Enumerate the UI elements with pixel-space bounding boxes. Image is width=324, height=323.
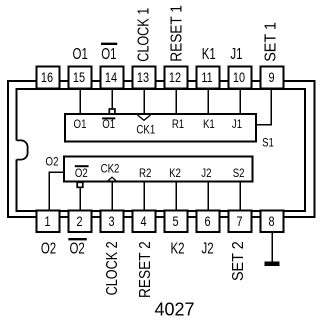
svg-text:7: 7 — [236, 214, 242, 230]
svg-text:6: 6 — [204, 214, 210, 230]
pin 1 box — [37, 211, 60, 232]
svg-text:O1: O1 — [102, 118, 115, 131]
svg-text:1: 1 — [44, 214, 50, 230]
svg-text:O1: O1 — [101, 46, 116, 63]
pin 10 box — [229, 67, 252, 89]
svg-text:4027: 4027 — [154, 300, 194, 320]
svg-text:RESET 1: RESET 1 — [168, 5, 185, 62]
ground symbol — [264, 262, 279, 267]
wire pin13 CK1 — [143, 89, 145, 115]
wire pin6 J2 — [207, 182, 209, 211]
wire pin3 CK2 — [111, 182, 113, 211]
pin 14 box — [101, 67, 124, 89]
ground wire pin 8 — [271, 232, 273, 262]
pin 12 box — [165, 67, 188, 89]
pin 2 box — [69, 211, 92, 232]
svg-text:K1: K1 — [203, 118, 215, 131]
svg-text:RESET 2: RESET 2 — [137, 241, 154, 298]
svg-text:10: 10 — [233, 70, 245, 86]
svg-text:8: 8 — [268, 214, 274, 230]
pin 3 box — [101, 211, 124, 232]
svg-text:4: 4 — [140, 214, 146, 230]
pin 4 box — [133, 211, 156, 232]
svg-text:J1: J1 — [232, 118, 242, 131]
svg-text:14: 14 — [105, 70, 117, 86]
wire pin15 O1 — [79, 89, 81, 115]
svg-text:O2: O2 — [46, 156, 59, 169]
wire pin11 K1 — [207, 89, 209, 115]
svg-text:S2: S2 — [233, 167, 245, 180]
wire pin14 O1bar — [111, 89, 113, 109]
svg-text:12: 12 — [169, 70, 181, 86]
outer package outline ring — [8, 81, 314, 217]
pin 7 box — [229, 211, 252, 232]
svg-text:O1: O1 — [74, 118, 87, 131]
svg-text:K1: K1 — [202, 46, 216, 63]
svg-text:SET 1: SET 1 — [262, 22, 280, 62]
wire pin7 S2 — [239, 182, 241, 211]
pin 5 box — [165, 211, 188, 232]
wire pin10 J1 — [239, 89, 241, 115]
svg-text:O2: O2 — [41, 240, 56, 257]
flip-flop 1 box — [65, 114, 256, 141]
svg-text:O2: O2 — [69, 240, 84, 257]
svg-text:CLOCK 2: CLOCK 2 — [103, 241, 121, 295]
pin 15 box — [69, 67, 92, 89]
inverter bubble O2bar — [77, 182, 83, 187]
svg-text:SET 2: SET 2 — [229, 241, 247, 281]
svg-text:CK1: CK1 — [136, 123, 155, 136]
svg-text:S1: S1 — [262, 136, 274, 149]
svg-text:K2: K2 — [170, 240, 184, 257]
svg-text:16: 16 — [41, 70, 53, 86]
svg-text:15: 15 — [73, 70, 85, 86]
pin 11 box — [197, 67, 220, 89]
pin 16 box — [37, 67, 60, 89]
svg-text:2: 2 — [76, 214, 82, 230]
wire O2 to pin1 — [49, 172, 63, 210]
svg-text:CK2: CK2 — [101, 162, 120, 175]
pin 13 box — [133, 67, 156, 89]
wire pin12 R1 — [175, 89, 177, 115]
wire pin9 S1 — [257, 89, 271, 125]
svg-text:3: 3 — [108, 214, 114, 230]
svg-text:J1: J1 — [230, 46, 242, 63]
svg-text:O1: O1 — [73, 46, 88, 63]
clock chevron CK2 — [107, 177, 116, 181]
svg-text:J2: J2 — [202, 240, 214, 257]
inverter bubble O1bar — [109, 109, 115, 114]
svg-text:CLOCK 1: CLOCK 1 — [135, 8, 153, 62]
svg-text:13: 13 — [137, 70, 149, 86]
flip-flop 2 box — [64, 157, 252, 182]
pin 8 box — [261, 211, 284, 232]
svg-text:R1: R1 — [172, 118, 184, 131]
clock chevron CK1 — [138, 115, 151, 120]
svg-text:11: 11 — [201, 70, 212, 86]
wire O2bar to pin2 — [79, 188, 81, 211]
svg-text:9: 9 — [268, 70, 274, 86]
svg-text:5: 5 — [172, 214, 178, 230]
svg-text:J2: J2 — [201, 167, 211, 180]
svg-text:O2: O2 — [75, 167, 88, 180]
pin 9 box — [261, 67, 284, 89]
svg-text:K2: K2 — [169, 167, 181, 180]
pin 6 box — [197, 211, 220, 232]
svg-text:R2: R2 — [139, 167, 151, 180]
wire pin4 R2 — [143, 182, 145, 211]
wire pin5 K2 — [175, 182, 177, 211]
IC body outline — [17, 89, 305, 211]
notch — [17, 140, 28, 159]
